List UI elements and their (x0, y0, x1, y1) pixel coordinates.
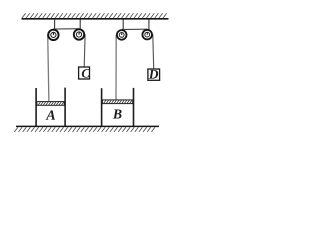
pulley P3 (117, 30, 127, 40)
support rod for pulley P4 (148, 20, 150, 30)
string from P3 to piston B (115, 35, 117, 100)
ground hatching (14, 127, 155, 132)
label B (113, 109, 122, 118)
piston in vessel A (37, 102, 64, 106)
support rod for pulley P2 (79, 20, 81, 30)
string from P2 to block C (83, 34, 86, 67)
label D (149, 70, 158, 79)
block D (148, 69, 160, 80)
ground line (16, 125, 159, 127)
label A (46, 110, 55, 119)
vessel B left wall (101, 88, 103, 126)
piston in vessel B (102, 100, 132, 104)
vessel A left wall (35, 88, 37, 126)
support rod for pulley P1 (54, 20, 56, 30)
vessel B right wall (133, 88, 135, 126)
string from P1 to piston A (48, 35, 49, 102)
pulley P1 (48, 30, 58, 40)
vessel A right wall (64, 88, 66, 126)
ceiling hatching (22, 13, 167, 18)
pulley P4 (142, 30, 152, 40)
string from P4 to block D (152, 34, 155, 68)
block C (79, 67, 90, 79)
pulley P2 (74, 29, 84, 39)
string over right pulley pair (122, 28, 148, 30)
label C (82, 69, 90, 77)
support rod for pulley P3 (122, 20, 124, 30)
ceiling line (22, 18, 169, 20)
string over left pulley pair (53, 28, 79, 30)
